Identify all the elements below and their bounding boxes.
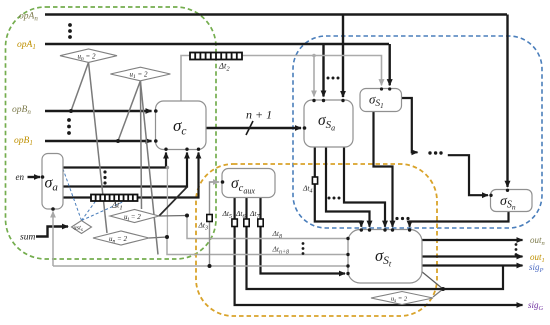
block sigma_Sn xyxy=(491,190,533,212)
wire sigma_Sa out2 to sigma_St xyxy=(326,147,370,227)
junction node dt_n+8 xyxy=(165,235,169,239)
delay element dt6 xyxy=(244,219,249,227)
blue dashed region boundary xyxy=(293,36,542,228)
wire sigma_a out3 to shift register dt1 xyxy=(63,196,92,198)
wire dt2 branch to sigma_Sa (gray) xyxy=(313,56,315,97)
wire opB_n into sigma_c xyxy=(45,110,152,112)
wire opA_1 right drop to sigma_S1 xyxy=(389,44,391,85)
wire sum into alpha-st diamond xyxy=(36,227,68,237)
junction nodes sigma_c left inputs xyxy=(154,109,158,113)
ellipsis dots horizontal sigma_Sa inputs xyxy=(327,77,340,80)
delay element dt3 xyxy=(207,215,212,222)
ellipsis dots horizontal sigma_Sa outputs xyxy=(328,197,341,200)
block sigma_St xyxy=(348,230,422,284)
junction nodes sigma_Sn xyxy=(506,189,509,192)
shift register dt2 xyxy=(190,53,242,60)
wire dt2 register right to sigma_S1 (gray) xyxy=(241,56,382,86)
wire diagonal from u_1 top diamond to u_i diamond xyxy=(140,81,141,209)
blue dashed link ast diamond to dt1 left xyxy=(82,201,97,221)
block sigma_Sa xyxy=(304,100,353,147)
wire black diagonal u_i diamond to sigma_c input corner xyxy=(159,187,187,216)
wire opB_1 into sigma_c xyxy=(45,140,152,142)
junction nodes sigma_Sa top xyxy=(312,99,315,102)
decision diamond u_n top xyxy=(60,49,117,62)
block sigma_c_aux xyxy=(222,169,275,198)
wire sigma_Sa out1 through dt4 to sigma_St xyxy=(315,147,362,227)
wire gray feedback bus to sigma_a and sigma_St xyxy=(53,265,348,267)
wire sig_P from sigma_St xyxy=(422,264,523,266)
decision diamond u_s xyxy=(371,292,433,305)
wire sigma_a out1 to sigma_c bottom input 1 xyxy=(63,153,166,168)
ellipsis dots horizontal before sigma_Sn chain xyxy=(428,151,442,154)
ellipsis dots vertical opA xyxy=(68,23,72,39)
wire sigma_S1 bottom out to sigma_St xyxy=(374,111,393,227)
wire sigma_c_aux out2 into dt6 xyxy=(245,198,247,220)
junction node en at sigma_a xyxy=(41,175,45,179)
junction node sigma_Sa left input xyxy=(303,126,307,130)
op-amp block sigma_c U1 xyxy=(156,101,207,150)
wire opA_1 horizontal bus xyxy=(45,43,389,45)
block sigma_a xyxy=(42,154,63,210)
orange dashed region boundary xyxy=(196,164,437,316)
green dashed region boundary xyxy=(6,7,217,259)
junction nodes sigma_c bottom edge xyxy=(164,148,167,151)
wire en into sigma_a xyxy=(28,176,41,178)
decision diamond alpha-st xyxy=(72,221,92,234)
wire sigma_Sa out3 to sigma_St xyxy=(344,147,385,227)
blue dashed link ast diamond to sigma_a xyxy=(63,169,82,221)
wire sigma_c_aux out1 into dt5 xyxy=(234,198,236,220)
wire dt1 register to sigma_c bottom input 3 xyxy=(137,153,199,198)
junction nodes sigma_S1 top xyxy=(380,87,383,90)
decision diamond u_i lower xyxy=(110,210,159,223)
ellipsis dots horizontal sigma_St top right xyxy=(395,217,409,220)
block sigma_S1 xyxy=(360,89,402,112)
ellipsis dots vertical dt8 bus xyxy=(302,242,305,255)
wire ellipsis to sigma_Sn left input xyxy=(448,155,488,195)
wire sigma_Sn bottom out to sigma_St top xyxy=(410,212,509,227)
decision diamond u_1 top xyxy=(110,67,170,81)
wire sigma_c_aux out3 into dt7 xyxy=(259,198,261,220)
shift register dt1 xyxy=(91,195,138,202)
wire opA_n branch down to sigma_Sa xyxy=(342,15,344,98)
wire dt8 gray bus into sigma_St xyxy=(187,216,348,239)
junction node sigma_c_aux input xyxy=(221,180,225,184)
junction node gray tap on sigma_a out1 xyxy=(166,166,170,170)
wire out_1 from sigma_St xyxy=(422,255,523,257)
ellipsis dots vertical out bus xyxy=(515,243,518,256)
junction nodes sigma_St top xyxy=(360,228,363,231)
wire u_s diamond to sig node xyxy=(433,289,443,297)
wire u_i diamond to dt8 node xyxy=(159,215,187,218)
junction node sig_P loop xyxy=(441,287,445,291)
wire opA_n horizontal bus xyxy=(45,13,507,15)
wire diagonal from u_1 top diamond to opB_1 node xyxy=(118,81,140,141)
junction node sigma_a bottom xyxy=(51,207,55,211)
junction node dt3 tap xyxy=(208,264,212,268)
wire opA_1 branch down to sigma_Sa xyxy=(322,44,324,97)
junction node on opB_1 xyxy=(116,139,120,143)
delay element dt5 xyxy=(232,219,237,227)
junction nodes sigma_St left xyxy=(346,237,349,240)
wire diagonal from u_n top diamond to opB_n node xyxy=(71,62,89,111)
decision diamond u_n lower xyxy=(93,231,149,245)
svg-text:n + 1: n + 1 xyxy=(246,108,272,122)
wire opA_n right drop to sigma_Sn xyxy=(506,15,508,187)
wire dt7 into sigma_St left xyxy=(261,227,346,274)
wire dt5 to sig_G output xyxy=(235,227,523,306)
wire long diagonal from u_1 top diamond to dt_n+8 bus xyxy=(140,81,158,255)
delay element dt4 xyxy=(312,177,317,184)
ellipsis dots vertical opB xyxy=(67,118,71,135)
svg-text:en: en xyxy=(16,172,25,182)
svg-text:sum: sum xyxy=(20,233,35,243)
bus width slash on n+1 xyxy=(246,121,253,135)
wire gray tap from sigma_a out1 wire down to u_n node xyxy=(166,168,168,238)
wire n+1 bus sigma_c to sigma_Sa xyxy=(206,127,301,129)
junction node gray dt2 branch xyxy=(312,54,316,58)
delay element dt7 xyxy=(258,219,263,227)
wire sigma_a out2 to sigma_c bottom input 2 xyxy=(63,153,187,187)
wire sigma_c top to dt2 register xyxy=(181,56,191,102)
wire out_n from sigma_St xyxy=(422,239,523,241)
blue dashed link ast diamond to dt1 middle xyxy=(82,201,127,221)
ellipsis dots vertical sigma_a outputs xyxy=(103,170,106,184)
wire u_n diamond to dt_n+8 node xyxy=(149,237,167,238)
wire diagonal from u_n top diamond down to lower diamond xyxy=(89,62,108,233)
wire dt3 tap up into sigma_c_aux xyxy=(210,182,220,266)
wire dt_n+8 gray bus into sigma_St xyxy=(167,237,348,255)
wire diagonal sigma_St to u_s node xyxy=(421,271,443,289)
junction node dt8 xyxy=(185,214,189,218)
wire dt6 joining sig_P line xyxy=(247,227,504,290)
junction node on opB_n xyxy=(69,109,73,113)
wire sigma_S1 right out toward ellipsis xyxy=(402,98,418,152)
wire gray up into sigma_a bottom xyxy=(52,212,54,267)
